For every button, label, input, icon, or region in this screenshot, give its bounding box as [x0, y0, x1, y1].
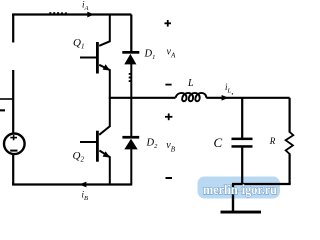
wire bottom bus	[12, 183, 131, 185]
wire ground stem	[232, 184, 234, 211]
wire bottom right bus	[232, 183, 291, 185]
wire capacitor bottom lead	[241, 148, 243, 185]
wire right column lower	[289, 154, 291, 185]
wire top bus	[12, 13, 131, 15]
svg-text:C: C	[214, 135, 223, 150]
svg-text:L: L	[187, 78, 194, 89]
capacitor C	[232, 138, 253, 148]
Q1 base bar	[96, 42, 99, 74]
Q1 base lead	[80, 57, 96, 59]
wire D column upper	[130, 15, 132, 52]
wire capacitor top lead	[241, 98, 243, 138]
arrow iA on top bus	[87, 12, 94, 18]
wire texture nubs D column	[129, 73, 131, 82]
arrow iB on bottom bus	[79, 182, 86, 188]
diode D2	[122, 136, 139, 150]
Q2 emitter arrow	[103, 151, 111, 157]
inductor L	[176, 93, 207, 101]
diode D1	[122, 51, 139, 64]
label plus vB	[165, 113, 172, 120]
Q2 collector wire	[99, 98, 110, 135]
wire D1 to mid bus	[130, 64, 132, 98]
label iL dot	[232, 93, 233, 94]
watermark box	[198, 177, 281, 199]
Q1 collector wire	[99, 15, 110, 46]
Q2 base lead	[80, 141, 96, 143]
wire right column upper	[289, 98, 291, 133]
svg-text:R: R	[269, 136, 276, 146]
svg-text:merlin-igor.ru: merlin-igor.ru	[203, 182, 277, 197]
ground bar	[221, 211, 262, 214]
Q1 emitter wire	[99, 65, 110, 98]
Q2 base bar	[96, 131, 99, 162]
wire left-edge midpoint lead	[0, 98, 13, 100]
wire D2 to bottom bus	[130, 149, 132, 186]
source V1 minus	[10, 150, 17, 152]
source V1 circle	[4, 134, 25, 155]
transistor Q2	[80, 98, 110, 185]
wire D column mid	[130, 98, 132, 136]
label minus vA	[165, 84, 171, 86]
Q1 emitter arrow	[103, 64, 111, 70]
wire texture nubs top bus	[49, 12, 67, 14]
source V1 plus	[10, 135, 17, 140]
transistor Q1	[80, 15, 110, 98]
label plus vA	[165, 20, 172, 27]
wire left bus lower segment	[12, 155, 14, 186]
resistor R	[286, 132, 294, 154]
label minus tick at left edge	[0, 109, 5, 111]
wire left bus upper segment	[12, 14, 14, 43]
wire mid bus right part	[206, 97, 289, 99]
label minus vB	[166, 177, 173, 179]
arrow iL on mid bus	[222, 95, 229, 101]
wire mid bus left part	[109, 97, 176, 99]
wire left bus middle segment	[12, 70, 14, 133]
Q2 emitter wire	[99, 151, 109, 185]
